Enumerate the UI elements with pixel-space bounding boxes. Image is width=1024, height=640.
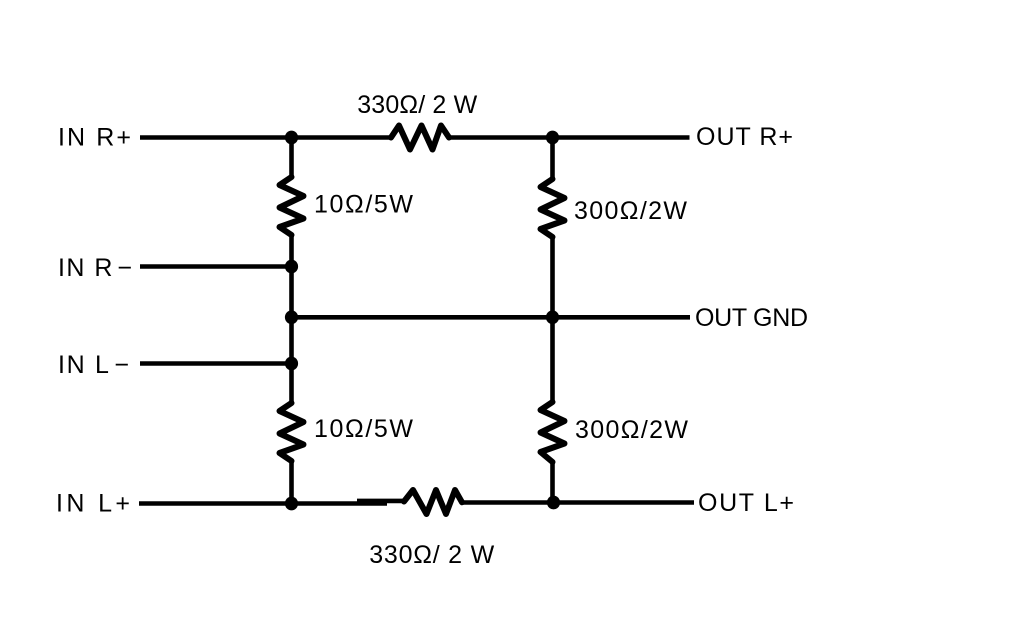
junction node dot IN R− — [285, 260, 298, 274]
resistor 300Ω/2W lower vertical — [541, 402, 565, 462]
wire jog segment before bottom resistor — [357, 499, 404, 504]
resistor 10Ω/5W upper vertical — [280, 177, 304, 235]
junction node dot bottom-right — [547, 496, 560, 510]
junction node dot top-left — [285, 131, 298, 145]
wire IN L+ right segment to OUT L+ — [462, 500, 694, 505]
junction node dot GND right — [546, 310, 559, 324]
wire OUT GND row — [292, 315, 691, 320]
svg-text:300Ω/2W: 300Ω/2W — [575, 416, 688, 444]
junction node dot top-right — [546, 131, 559, 145]
svg-text:10Ω/5W: 10Ω/5W — [314, 191, 413, 219]
junction node dot bottom-left — [285, 497, 298, 511]
svg-text:OUT GND: OUT GND — [695, 304, 808, 332]
svg-text:330Ω/ 2 W: 330Ω/ 2 W — [357, 91, 477, 119]
resistor 330Ω/2W top horizontal — [391, 126, 449, 150]
left vertical bus wire upper — [289, 138, 294, 178]
junction node dot IN L− — [285, 357, 298, 371]
svg-text:330Ω/ 2 W: 330Ω/ 2 W — [369, 541, 494, 569]
svg-text:OUT L+: OUT L+ — [698, 489, 794, 517]
svg-text:10Ω/5W: 10Ω/5W — [314, 415, 413, 443]
wire IN R+ left segment — [140, 135, 391, 140]
right vertical bus wire upper — [550, 138, 555, 180]
right vertical bus wire lower — [550, 462, 555, 503]
svg-text:IN R −: IN R − — [58, 254, 132, 282]
svg-text:IN L+: IN L+ — [56, 490, 130, 518]
svg-text:OUT R+: OUT R+ — [696, 123, 793, 151]
wire IN R− — [140, 264, 292, 269]
right vertical bus wire middle — [550, 237, 555, 402]
junction node dot GND left — [285, 310, 298, 324]
wire IN L− — [140, 361, 292, 366]
wire IN R+ right segment to OUT R+ — [449, 135, 690, 140]
left vertical bus wire middle — [289, 235, 294, 403]
left vertical bus wire lower — [289, 461, 294, 504]
svg-text:300Ω/2W: 300Ω/2W — [574, 197, 687, 225]
resistor 300Ω/2W upper vertical — [541, 179, 565, 237]
wire IN L+ left segment — [139, 501, 387, 506]
resistor 330Ω/2W bottom horizontal — [404, 490, 462, 514]
resistor 10Ω/5W lower vertical — [280, 403, 304, 461]
